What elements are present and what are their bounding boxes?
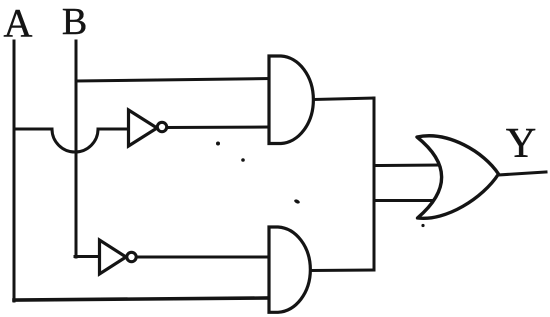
wire: top NOT output to top AND gate lower input: [166, 126, 270, 130]
wire: A to bottom AND gate lower input: [14, 298, 269, 300]
NOT gate U2 output bubble: [127, 252, 136, 261]
OR gate G3: [417, 136, 499, 219]
wire: A branch with hop over B line to top NOT gate input: [14, 129, 129, 152]
NOT gate U2 (bottom inverter) triangle: [100, 240, 127, 274]
wire: top AND output: [314, 98, 374, 100]
svg-text:B: B: [62, 1, 87, 43]
speck: [241, 158, 245, 162]
NOT gate U1 (top inverter) triangle: [129, 110, 158, 146]
svg-text:Y: Y: [506, 121, 536, 167]
speck: [294, 199, 301, 205]
wire: upper OR gate input: [374, 164, 441, 168]
AND gate G2 (bottom): [269, 227, 310, 312]
speck: [216, 142, 220, 146]
wire: bottom NOT output to bottom AND gate upper input: [136, 256, 270, 259]
wire: input B vertical line: [75, 41, 78, 257]
wire: OR output to Y: [498, 172, 546, 175]
wire: input A vertical line: [13, 41, 16, 301]
wire: lower OR gate input: [374, 199, 438, 202]
svg-text:A: A: [4, 1, 33, 46]
wire: B branch to top AND gate upper input: [76, 79, 270, 82]
AND gate G1 (top): [269, 56, 313, 144]
speck: [421, 224, 424, 227]
wire: B corner to bottom NOT gate input: [75, 255, 100, 258]
wire: bottom AND output: [311, 269, 374, 273]
wire: vertical bus joining both AND outputs: [373, 98, 376, 270]
NOT gate U1 output bubble: [157, 122, 166, 131]
